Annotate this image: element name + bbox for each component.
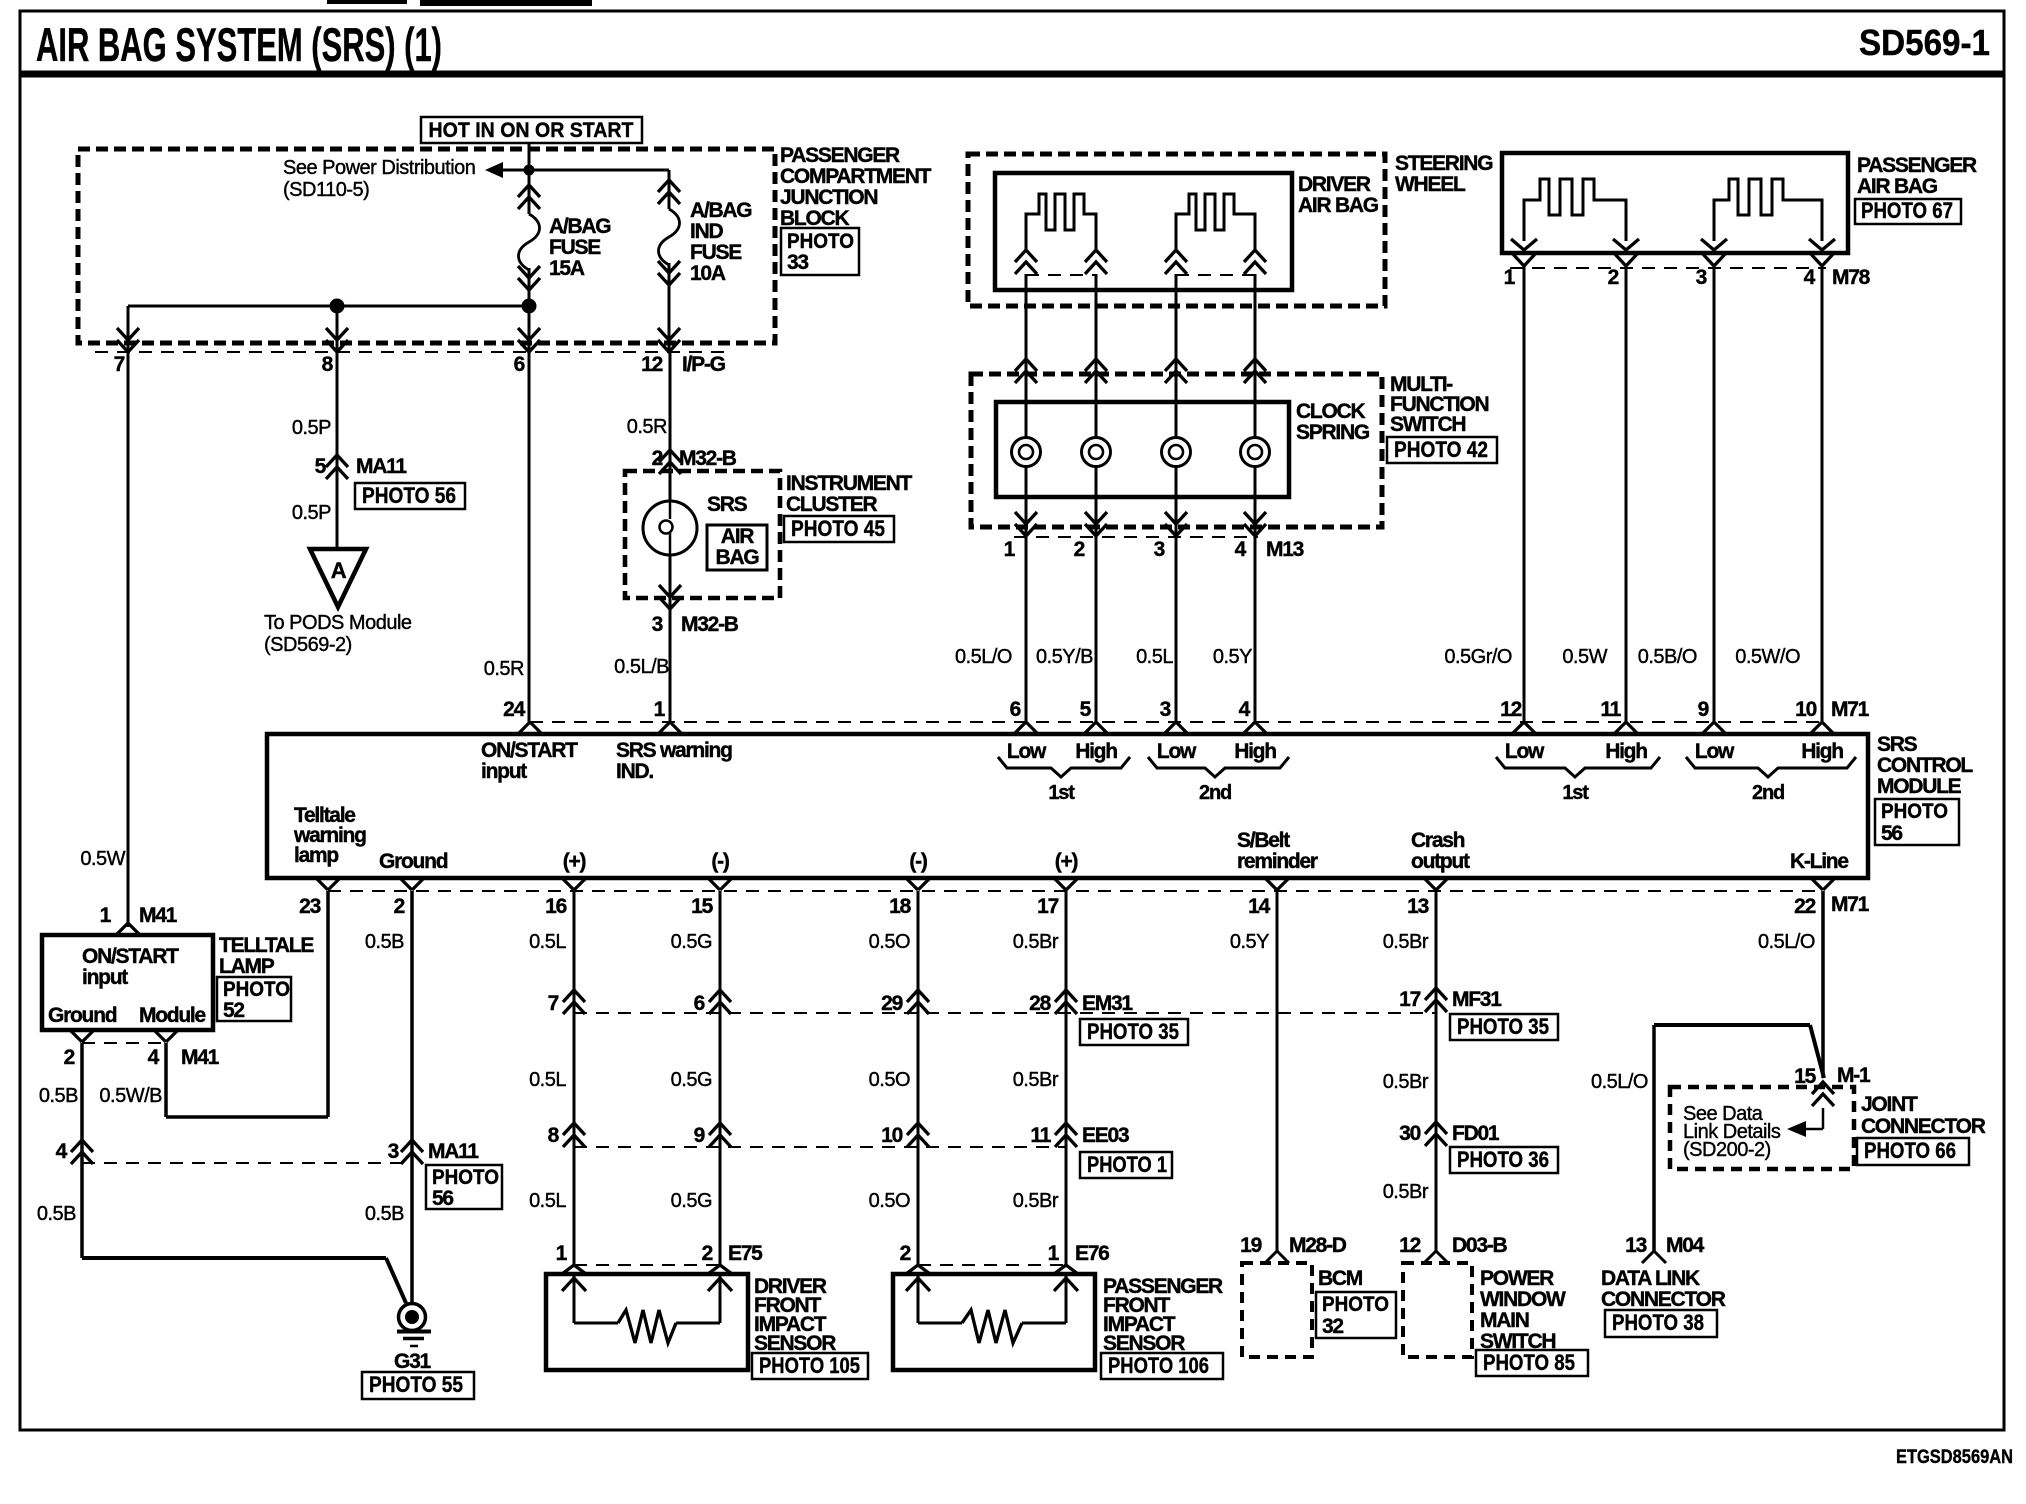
svg-text:0.5W: 0.5W <box>1562 646 1607 668</box>
svg-text:DATA LINK: DATA LINK <box>1601 1267 1700 1290</box>
svg-text:PHOTO 85: PHOTO 85 <box>1483 1350 1575 1375</box>
svg-text:SRS warning: SRS warning <box>616 739 732 762</box>
svg-text:3: 3 <box>1696 266 1707 289</box>
svg-text:reminder: reminder <box>1237 850 1318 873</box>
svg-text:0.5W/B: 0.5W/B <box>99 1085 162 1107</box>
svg-text:1: 1 <box>654 698 666 721</box>
svg-text:1: 1 <box>1048 1242 1060 1265</box>
svg-text:PHOTO 36: PHOTO 36 <box>1457 1147 1549 1172</box>
svg-text:1: 1 <box>1004 538 1016 561</box>
svg-text:0.5Gr/O: 0.5Gr/O <box>1444 646 1512 668</box>
svg-text:INSTRUMENT: INSTRUMENT <box>786 472 912 495</box>
svg-text:1: 1 <box>1504 266 1516 289</box>
svg-text:0.5L: 0.5L <box>529 1190 566 1212</box>
svg-text:FD01: FD01 <box>1452 1122 1500 1145</box>
svg-text:AIR BAG: AIR BAG <box>1857 175 1938 198</box>
svg-text:STEERING: STEERING <box>1395 152 1493 175</box>
svg-text:0.5Br: 0.5Br <box>1383 931 1429 953</box>
svg-text:15A: 15A <box>549 257 585 280</box>
svg-text:High: High <box>1075 740 1117 763</box>
svg-text:0.5G: 0.5G <box>671 931 712 953</box>
svg-text:To PODS Module: To PODS Module <box>264 612 412 634</box>
svg-text:Low: Low <box>1505 740 1545 763</box>
svg-text:Crash: Crash <box>1411 829 1465 852</box>
svg-text:PHOTO 105: PHOTO 105 <box>759 1353 860 1378</box>
svg-text:See Power Distribution: See Power Distribution <box>283 157 475 179</box>
svg-text:24: 24 <box>503 698 525 721</box>
svg-text:JUNCTION: JUNCTION <box>780 186 877 209</box>
svg-text:3: 3 <box>388 1140 399 1163</box>
svg-text:D03-B: D03-B <box>1452 1234 1507 1257</box>
svg-text:2nd: 2nd <box>1752 782 1784 804</box>
svg-text:18: 18 <box>889 895 911 918</box>
svg-text:PHOTO 55: PHOTO 55 <box>369 1372 463 1397</box>
svg-text:SRS: SRS <box>707 493 748 516</box>
svg-text:10A: 10A <box>690 262 726 285</box>
svg-text:12: 12 <box>1399 1234 1420 1257</box>
svg-text:ON/START: ON/START <box>481 739 578 762</box>
svg-text:19: 19 <box>1240 1234 1261 1257</box>
svg-text:MODULE: MODULE <box>1877 775 1962 798</box>
svg-text:52: 52 <box>223 999 244 1022</box>
svg-text:0.5Br: 0.5Br <box>1383 1181 1429 1203</box>
svg-text:0.5B/O: 0.5B/O <box>1638 646 1697 668</box>
svg-text:Low: Low <box>1157 740 1197 763</box>
svg-text:PHOTO 56: PHOTO 56 <box>362 483 456 508</box>
svg-text:PHOTO 45: PHOTO 45 <box>791 516 885 541</box>
svg-text:LAMP: LAMP <box>219 955 275 978</box>
svg-text:SD569-1: SD569-1 <box>1859 22 1990 63</box>
svg-text:AIR BAG SYSTEM (SRS) (1): AIR BAG SYSTEM (SRS) (1) <box>36 18 442 71</box>
svg-text:9: 9 <box>1698 698 1709 721</box>
svg-text:4: 4 <box>1235 538 1247 561</box>
svg-text:0.5B: 0.5B <box>39 1085 78 1107</box>
svg-text:0.5L/O: 0.5L/O <box>1758 931 1815 953</box>
svg-text:0.5L/O: 0.5L/O <box>1591 1071 1648 1093</box>
svg-text:2: 2 <box>1608 266 1619 289</box>
svg-text:MAIN: MAIN <box>1480 1309 1529 1332</box>
svg-text:17: 17 <box>1037 895 1058 918</box>
svg-text:SPRING: SPRING <box>1296 421 1370 444</box>
svg-text:A: A <box>331 558 347 583</box>
svg-text:2: 2 <box>652 447 663 470</box>
svg-text:33: 33 <box>787 251 808 274</box>
svg-text:lamp: lamp <box>294 844 338 867</box>
svg-text:WINDOW: WINDOW <box>1480 1288 1566 1311</box>
svg-text:EE03: EE03 <box>1082 1124 1129 1147</box>
svg-text:G31: G31 <box>394 1350 431 1373</box>
svg-text:11: 11 <box>1600 698 1621 721</box>
svg-text:M28-D: M28-D <box>1289 1234 1347 1257</box>
svg-text:(SD569-2): (SD569-2) <box>264 634 352 656</box>
svg-text:PHOTO 35: PHOTO 35 <box>1087 1019 1179 1044</box>
svg-text:ON/START: ON/START <box>82 945 179 968</box>
svg-text:13: 13 <box>1407 895 1428 918</box>
svg-text:0.5Br: 0.5Br <box>1013 1190 1059 1212</box>
svg-text:22: 22 <box>1794 895 1815 918</box>
svg-text:High: High <box>1605 740 1647 763</box>
svg-text:2: 2 <box>702 1242 713 1265</box>
svg-text:10: 10 <box>881 1124 902 1147</box>
svg-text:0.5Br: 0.5Br <box>1013 931 1059 953</box>
svg-text:10: 10 <box>1795 698 1816 721</box>
svg-text:I/P-G: I/P-G <box>682 353 726 376</box>
svg-text:M41: M41 <box>139 904 178 927</box>
svg-text:0.5Y/B: 0.5Y/B <box>1036 646 1093 668</box>
svg-text:0.5O: 0.5O <box>869 931 910 953</box>
svg-text:SENSOR: SENSOR <box>1103 1332 1185 1355</box>
svg-text:0.5B: 0.5B <box>37 1203 76 1225</box>
svg-text:PHOTO: PHOTO <box>223 978 290 1001</box>
svg-text:PHOTO 106: PHOTO 106 <box>1108 1353 1209 1378</box>
svg-text:PHOTO 1: PHOTO 1 <box>1087 1152 1167 1177</box>
svg-text:7: 7 <box>548 992 559 1015</box>
svg-text:1: 1 <box>556 1242 568 1265</box>
svg-text:2nd: 2nd <box>1199 782 1231 804</box>
svg-text:9: 9 <box>694 1124 705 1147</box>
svg-text:2: 2 <box>1074 538 1085 561</box>
svg-text:14: 14 <box>1248 895 1270 918</box>
svg-text:SWITCH: SWITCH <box>1390 413 1465 436</box>
svg-text:7: 7 <box>114 353 125 376</box>
svg-text:(SD200-2): (SD200-2) <box>1683 1139 1771 1161</box>
svg-text:6: 6 <box>514 353 525 376</box>
svg-text:5: 5 <box>315 455 327 478</box>
svg-text:K-Line: K-Line <box>1790 850 1848 873</box>
svg-text:0.5Y: 0.5Y <box>1213 646 1252 668</box>
svg-text:PHOTO 66: PHOTO 66 <box>1864 1138 1956 1163</box>
svg-text:PASSENGER: PASSENGER <box>1857 154 1977 177</box>
svg-text:E75: E75 <box>728 1242 763 1265</box>
svg-text:0.5L/B: 0.5L/B <box>614 656 669 678</box>
svg-text:3: 3 <box>1160 698 1171 721</box>
svg-text:0.5O: 0.5O <box>869 1069 910 1091</box>
svg-text:PHOTO 38: PHOTO 38 <box>1612 1310 1704 1335</box>
svg-text:PHOTO: PHOTO <box>787 230 854 253</box>
svg-text:CLUSTER: CLUSTER <box>786 493 877 516</box>
svg-text:(SD110-5): (SD110-5) <box>283 179 369 201</box>
svg-text:FUSE: FUSE <box>549 236 601 259</box>
svg-text:WHEEL: WHEEL <box>1395 173 1466 196</box>
svg-text:2: 2 <box>900 1242 911 1265</box>
svg-text:CLOCK: CLOCK <box>1296 400 1365 423</box>
svg-text:BLOCK: BLOCK <box>780 207 849 230</box>
svg-text:output: output <box>1411 850 1470 873</box>
svg-text:32: 32 <box>1322 1315 1343 1338</box>
svg-text:17: 17 <box>1399 988 1420 1011</box>
svg-text:4: 4 <box>56 1140 68 1163</box>
svg-text:M32-B: M32-B <box>679 447 737 470</box>
svg-text:12: 12 <box>641 353 662 376</box>
svg-text:PHOTO 35: PHOTO 35 <box>1457 1014 1549 1039</box>
svg-text:PHOTO 42: PHOTO 42 <box>1394 437 1488 462</box>
svg-text:4: 4 <box>1804 266 1816 289</box>
svg-text:2: 2 <box>394 895 405 918</box>
svg-text:2: 2 <box>64 1046 75 1069</box>
svg-text:(-): (-) <box>711 850 728 873</box>
svg-text:SENSOR: SENSOR <box>754 1332 836 1355</box>
svg-text:0.5G: 0.5G <box>671 1190 712 1212</box>
svg-text:M04: M04 <box>1666 1234 1705 1257</box>
svg-text:0.5P: 0.5P <box>292 417 331 439</box>
svg-text:0.5Br: 0.5Br <box>1013 1069 1059 1091</box>
svg-text:0.5Y: 0.5Y <box>1230 931 1269 953</box>
svg-text:15: 15 <box>691 895 713 918</box>
svg-text:MA11: MA11 <box>428 1140 479 1163</box>
svg-text:0.5B: 0.5B <box>365 931 404 953</box>
svg-text:0.5O: 0.5O <box>869 1190 910 1212</box>
svg-text:Module: Module <box>139 1004 206 1027</box>
svg-text:23: 23 <box>299 895 320 918</box>
svg-text:0.5L: 0.5L <box>529 1069 566 1091</box>
svg-text:High: High <box>1234 740 1276 763</box>
svg-text:4: 4 <box>148 1046 160 1069</box>
svg-text:6: 6 <box>694 992 705 1015</box>
svg-text:AIR: AIR <box>721 525 754 548</box>
svg-text:0.5R: 0.5R <box>627 416 667 438</box>
svg-text:0.5W/O: 0.5W/O <box>1735 646 1800 668</box>
svg-text:11: 11 <box>1030 1124 1051 1147</box>
svg-text:4: 4 <box>1239 698 1251 721</box>
svg-text:PASSENGER: PASSENGER <box>780 144 900 167</box>
svg-text:Ground: Ground <box>379 850 448 873</box>
svg-text:(-): (-) <box>909 850 926 873</box>
svg-text:TELLTALE: TELLTALE <box>219 934 314 957</box>
svg-text:0.5L: 0.5L <box>529 931 566 953</box>
svg-text:13: 13 <box>1625 1234 1646 1257</box>
svg-text:SRS: SRS <box>1877 733 1918 756</box>
svg-text:High: High <box>1801 740 1843 763</box>
svg-text:A/BAG: A/BAG <box>549 215 611 238</box>
svg-text:M32-B: M32-B <box>681 613 739 636</box>
svg-text:FUSE: FUSE <box>690 241 742 264</box>
svg-text:PHOTO 67: PHOTO 67 <box>1861 198 1953 223</box>
svg-text:0.5G: 0.5G <box>671 1069 712 1091</box>
svg-text:POWER: POWER <box>1480 1267 1554 1290</box>
svg-text:BCM: BCM <box>1318 1267 1363 1290</box>
svg-text:A/BAG: A/BAG <box>690 199 752 222</box>
svg-text:M13: M13 <box>1266 538 1304 561</box>
svg-text:CONNECTOR: CONNECTOR <box>1861 1115 1986 1138</box>
svg-text:15: 15 <box>1794 1065 1816 1088</box>
svg-text:56: 56 <box>1881 822 1902 845</box>
svg-text:0.5L: 0.5L <box>1136 646 1173 668</box>
svg-text:E76: E76 <box>1075 1242 1109 1265</box>
svg-text:12: 12 <box>1500 698 1521 721</box>
svg-text:16: 16 <box>545 895 566 918</box>
svg-text:CONNECTOR: CONNECTOR <box>1601 1288 1726 1311</box>
svg-text:S/Belt: S/Belt <box>1237 829 1290 852</box>
svg-text:HOT IN ON OR START: HOT IN ON OR START <box>429 119 634 142</box>
svg-text:EM31: EM31 <box>1082 992 1133 1015</box>
svg-text:0.5P: 0.5P <box>292 502 331 524</box>
svg-text:3: 3 <box>1154 538 1165 561</box>
svg-text:PHOTO: PHOTO <box>432 1166 499 1189</box>
svg-text:PHOTO: PHOTO <box>1322 1293 1389 1316</box>
svg-text:MA11: MA11 <box>356 455 407 478</box>
svg-text:0.5W: 0.5W <box>80 848 125 870</box>
svg-text:30: 30 <box>1399 1122 1420 1145</box>
svg-text:3: 3 <box>652 613 663 636</box>
svg-text:MF31: MF31 <box>1452 988 1502 1011</box>
svg-text:BAG: BAG <box>716 546 760 569</box>
svg-text:CONTROL: CONTROL <box>1877 754 1973 777</box>
svg-text:1st: 1st <box>1562 782 1589 804</box>
svg-text:ETGSD8569AN: ETGSD8569AN <box>1896 1447 2013 1468</box>
svg-text:Low: Low <box>1695 740 1735 763</box>
svg-text:M78: M78 <box>1832 266 1871 289</box>
svg-text:1: 1 <box>100 904 112 927</box>
svg-text:AIR BAG: AIR BAG <box>1298 194 1379 217</box>
svg-text:M71: M71 <box>1831 698 1870 721</box>
svg-text:IND: IND <box>690 220 723 243</box>
svg-text:JOINT: JOINT <box>1861 1093 1918 1116</box>
svg-text:29: 29 <box>881 992 902 1015</box>
svg-text:M71: M71 <box>1831 893 1870 916</box>
svg-text:COMPARTMENT: COMPARTMENT <box>780 165 932 188</box>
svg-text:5: 5 <box>1080 698 1092 721</box>
svg-text:28: 28 <box>1029 992 1051 1015</box>
svg-text:56: 56 <box>432 1187 453 1210</box>
svg-text:(+): (+) <box>1055 850 1078 873</box>
svg-text:M-1: M-1 <box>1837 1064 1871 1087</box>
svg-text:1st: 1st <box>1048 782 1075 804</box>
svg-text:0.5R: 0.5R <box>484 658 524 680</box>
svg-text:0.5Br: 0.5Br <box>1383 1071 1429 1093</box>
svg-text:IND.: IND. <box>616 760 653 783</box>
svg-text:0.5B: 0.5B <box>365 1203 404 1225</box>
svg-text:Low: Low <box>1007 740 1047 763</box>
svg-text:M41: M41 <box>181 1046 220 1069</box>
svg-text:(+): (+) <box>563 850 586 873</box>
svg-text:8: 8 <box>548 1124 560 1147</box>
svg-text:Ground: Ground <box>48 1004 117 1027</box>
svg-text:8: 8 <box>322 353 334 376</box>
svg-text:6: 6 <box>1010 698 1021 721</box>
svg-text:input: input <box>82 966 128 989</box>
svg-text:input: input <box>481 760 527 783</box>
svg-text:DRIVER: DRIVER <box>1298 173 1371 196</box>
svg-text:PHOTO: PHOTO <box>1881 800 1948 823</box>
svg-text:0.5L/O: 0.5L/O <box>955 646 1012 668</box>
